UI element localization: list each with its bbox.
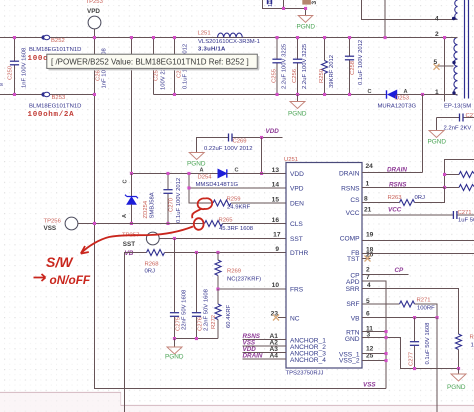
svg-text:SST: SST bbox=[290, 236, 303, 243]
junction C258 bottom bbox=[348, 93, 351, 96]
red annotation arrowhead bbox=[81, 246, 89, 254]
capacitor C269 bbox=[197, 134, 283, 153]
red annotation text ON/OFF bbox=[34, 274, 46, 281]
no-connect X pin 20 TST bbox=[362, 256, 371, 262]
svg-text:BLM18EG101TN1D: BLM18EG101TN1D bbox=[29, 47, 81, 53]
svg-text:24: 24 bbox=[366, 163, 374, 170]
svg-text:2.2nF 2KV: 2.2nF 2KV bbox=[444, 126, 472, 132]
svg-text:1K: 1K bbox=[471, 343, 474, 349]
junction C258 top bbox=[348, 36, 351, 39]
svg-text:2.2uF 100V 3225: 2.2uF 100V 3225 bbox=[282, 43, 288, 89]
svg-text:14: 14 bbox=[272, 182, 280, 189]
wire pin24 DRAIN bbox=[362, 172, 423, 174]
wire VB down off edge bbox=[436, 318, 438, 412]
junction VSS_1 bbox=[385, 352, 388, 355]
svg-text:12: 12 bbox=[366, 346, 374, 353]
svg-text:CS: CS bbox=[350, 197, 360, 204]
wire RSNS net off-edge bbox=[445, 160, 474, 188]
junction VB / R271 drop bbox=[436, 316, 439, 319]
wire pin12 VSS_1 bbox=[362, 353, 386, 355]
svg-text:ZD254: ZD254 bbox=[143, 200, 149, 218]
junction VPD drop top bbox=[187, 172, 190, 175]
junction C264 bottom / VSS corner bbox=[93, 93, 96, 96]
svg-text:U251: U251 bbox=[284, 157, 298, 163]
resistor R259 bbox=[213, 197, 286, 211]
svg-text:15: 15 bbox=[272, 197, 280, 204]
ground PGND below mid rail bbox=[288, 95, 307, 118]
svg-text:VLS201610CX-3R3M-1: VLS201610CX-3R3M-1 bbox=[198, 39, 260, 45]
svg-text:[ /POWER/B252 Value: BLM18EG10: [ /POWER/B252 Value: BLM18EG101TN1D Ref:… bbox=[51, 58, 249, 67]
junction top sub b bbox=[304, 7, 307, 10]
anchor pin A2 VSS bbox=[243, 340, 287, 347]
svg-text:7: 7 bbox=[366, 274, 370, 281]
resistor R271 bbox=[362, 298, 437, 318]
svg-text:GND: GND bbox=[345, 336, 360, 343]
svg-text:DRAIN: DRAIN bbox=[243, 353, 263, 360]
wire pin9 DTHR bbox=[165, 252, 287, 254]
capacitor C264 bbox=[90, 38, 108, 95]
diode D254 bbox=[196, 168, 239, 189]
svg-text:3.3uH/1A: 3.3uH/1A bbox=[198, 47, 226, 53]
svg-text:DTHR: DTHR bbox=[290, 250, 309, 257]
svg-text:C: C bbox=[123, 179, 129, 183]
svg-text:TST: TST bbox=[347, 256, 359, 263]
red annotation circle around R259 left bbox=[198, 198, 213, 209]
wire VB stub down bbox=[125, 253, 147, 412]
svg-text:17: 17 bbox=[273, 232, 281, 239]
junction C256 top bbox=[296, 36, 299, 39]
svg-text:VDD: VDD bbox=[290, 171, 304, 178]
svg-text:A4: A4 bbox=[270, 353, 279, 360]
svg-text:PGND: PGND bbox=[187, 161, 206, 168]
wire PGND mid rail bbox=[154, 94, 387, 96]
svg-text:VB: VB bbox=[125, 250, 134, 257]
svg-text:NC(237KRF): NC(237KRF) bbox=[227, 277, 261, 283]
junction on pin13 wire bbox=[260, 172, 263, 175]
red annotation squiggle connector bbox=[192, 209, 202, 219]
junction R250 bottom bbox=[323, 93, 326, 96]
junction zener bottom bbox=[130, 222, 133, 225]
svg-text:D254: D254 bbox=[198, 175, 213, 181]
wire VSS drop from return rail bbox=[95, 95, 387, 389]
pin numbers right side bbox=[364, 163, 374, 360]
wire input return rail bbox=[0, 94, 95, 96]
transformer pin 4 dot bbox=[452, 17, 455, 20]
junction C270 top bbox=[166, 172, 169, 175]
wire pin3 GND bbox=[362, 338, 459, 369]
svg-text:DRAIN: DRAIN bbox=[339, 171, 360, 178]
svg-text:0RJ: 0RJ bbox=[415, 195, 426, 201]
svg-text:FRS: FRS bbox=[290, 287, 304, 294]
svg-text:NC: NC bbox=[290, 316, 300, 323]
transformer pin 1 dot bbox=[452, 91, 455, 94]
transformer center tap dot bbox=[452, 61, 455, 64]
svg-text:0.1uF 50V 1608: 0.1uF 50V 1608 bbox=[425, 322, 431, 365]
junction C270 bottom bbox=[166, 222, 169, 225]
svg-text:R270: R270 bbox=[470, 335, 474, 341]
svg-text:0RJ: 0RJ bbox=[145, 269, 156, 275]
red annotation circle around R265 left bbox=[194, 218, 204, 230]
junction VSS_2 bbox=[385, 359, 388, 362]
junction C255 top bbox=[276, 36, 279, 39]
junction C255 bottom bbox=[276, 93, 279, 96]
svg-text:VSS: VSS bbox=[44, 225, 57, 232]
wire pin10 FRS bbox=[218, 288, 286, 290]
transformer pin 3 stub (cut) bbox=[302, 0, 311, 5]
svg-text:0.1uF 100V 2012: 0.1uF 100V 2012 bbox=[358, 40, 364, 85]
svg-text:TP253: TP253 bbox=[86, 0, 104, 5]
svg-text:39KRF 2012: 39KRF 2012 bbox=[329, 55, 335, 88]
wire pin14 VPD bbox=[189, 187, 286, 189]
svg-text:C: C bbox=[235, 168, 239, 174]
svg-text:PGND: PGND bbox=[288, 111, 307, 118]
svg-text:SST: SST bbox=[123, 241, 135, 248]
svg-text:C270: C270 bbox=[169, 197, 175, 212]
junction VPD rail / up wire bbox=[384, 36, 387, 39]
svg-text:CP: CP bbox=[395, 267, 405, 274]
svg-text:3: 3 bbox=[311, 1, 318, 5]
junction FRS / R272 bbox=[216, 288, 219, 291]
junction DTHR / R269 bbox=[216, 251, 219, 254]
wire DRAIN vertical bbox=[422, 95, 424, 173]
junction pin14 bbox=[187, 186, 190, 189]
zener diode ZD254 bbox=[122, 174, 156, 224]
svg-text:D253: D253 bbox=[395, 96, 410, 102]
svg-text:MURA120T3G: MURA120T3G bbox=[378, 104, 417, 110]
svg-text:R272: R272 bbox=[211, 315, 217, 329]
svg-text:DRAIN: DRAIN bbox=[387, 167, 407, 174]
resistor R272 bbox=[211, 289, 232, 339]
svg-text:2.2nF 50V 1608: 2.2nF 50V 1608 bbox=[204, 288, 210, 331]
svg-text:4: 4 bbox=[435, 16, 439, 23]
wire top component leg bbox=[283, 0, 285, 9]
svg-text:ANCHOR_4: ANCHOR_4 bbox=[290, 357, 326, 364]
svg-text:100ohm/2A: 100ohm/2A bbox=[28, 111, 75, 119]
svg-text:APD: APD bbox=[346, 279, 360, 286]
transformer T primary winding upper bbox=[455, 0, 458, 20]
ferrite bead B252 bbox=[28, 35, 82, 63]
resistor Rs2 (off edge) bbox=[445, 185, 474, 191]
wire pin4 SRR bbox=[362, 289, 459, 335]
wire VSS row bbox=[78, 223, 205, 225]
junction C250 bottom bbox=[13, 93, 16, 96]
junction Rs1 bbox=[443, 173, 446, 176]
transformer T primary winding lower bbox=[454, 38, 458, 96]
svg-text:MMSD4148T1G: MMSD4148T1G bbox=[196, 182, 239, 188]
svg-text:VCC: VCC bbox=[388, 207, 402, 214]
svg-text:C258: C258 bbox=[350, 60, 356, 75]
ground PGND below C269 bbox=[187, 153, 206, 168]
svg-text:COMP: COMP bbox=[340, 236, 360, 243]
junction SST / C275 bbox=[173, 237, 176, 240]
resistor Rs1 (off edge) bbox=[445, 172, 474, 178]
svg-text:SRF: SRF bbox=[346, 301, 359, 308]
tooltip bbox=[47, 54, 259, 70]
ground PGND below C272 bbox=[428, 131, 447, 146]
transformer core bbox=[465, 0, 469, 99]
test point TP257 bbox=[122, 232, 159, 257]
junction C259 top bbox=[152, 36, 155, 39]
junction zener top bbox=[130, 172, 133, 175]
svg-text:R263: R263 bbox=[388, 195, 403, 201]
resistor R268 bbox=[145, 250, 165, 275]
capacitor C258 bbox=[345, 38, 364, 95]
svg-text:CLS: CLS bbox=[290, 221, 303, 228]
svg-text:C277: C277 bbox=[409, 352, 415, 366]
svg-text:0.1uF 100V 2012: 0.1uF 100V 2012 bbox=[176, 178, 182, 223]
capacitor C250 bbox=[8, 38, 28, 95]
svg-text:2: 2 bbox=[366, 267, 370, 274]
svg-text:PGND: PGND bbox=[165, 354, 184, 361]
svg-text:C272: C272 bbox=[466, 113, 474, 119]
resistor R263 bbox=[362, 188, 445, 206]
junction TP253/C264 top bbox=[93, 36, 96, 39]
svg-text:s: s bbox=[0, 82, 3, 88]
svg-text:24.9KRF: 24.9KRF bbox=[227, 205, 251, 211]
svg-text:0.22uF 100V 2012: 0.22uF 100V 2012 bbox=[204, 146, 252, 152]
svg-text:TPS23750RJJ: TPS23750RJJ bbox=[286, 371, 324, 377]
svg-text:RSNS: RSNS bbox=[341, 186, 360, 193]
anchor pin A1 RSNS bbox=[243, 333, 287, 340]
svg-text:PGND: PGND bbox=[447, 384, 466, 391]
svg-text:10: 10 bbox=[272, 282, 280, 289]
wire D253 anode to transformer pin 1 bbox=[397, 94, 453, 96]
svg-text:21: 21 bbox=[364, 207, 372, 214]
svg-text:R271: R271 bbox=[417, 298, 431, 304]
junction DTHR / C276 bbox=[195, 251, 198, 254]
junction RSNS vertical top bbox=[443, 36, 446, 39]
svg-text:R269: R269 bbox=[227, 269, 241, 275]
svg-text:R259: R259 bbox=[227, 197, 241, 203]
svg-text:B252: B252 bbox=[51, 38, 65, 44]
junction VDD branch top bbox=[130, 36, 133, 39]
sheet border bbox=[0, 393, 474, 406]
capacitor C271 bbox=[362, 210, 474, 224]
transformer pin 5 stub with no-connect X bbox=[434, 59, 454, 70]
inductor L251 bbox=[198, 31, 260, 53]
wire pin17 SST bbox=[159, 238, 286, 240]
svg-text:100RF: 100RF bbox=[417, 306, 435, 312]
pin numbers left side bbox=[271, 167, 281, 318]
junction C254 bottom bbox=[173, 93, 176, 96]
capacitor C254 bbox=[170, 38, 189, 95]
svg-text:VDD: VDD bbox=[266, 128, 280, 135]
no-connect X pin 23 bbox=[273, 315, 286, 321]
svg-text:1: 1 bbox=[366, 181, 370, 188]
wire pin7 APD to RTN vertical bbox=[362, 281, 386, 389]
junction VDD tap bbox=[260, 136, 263, 139]
svg-text:SMBJ58A: SMBJ58A bbox=[150, 192, 156, 218]
wire pin19 COMP bbox=[362, 240, 474, 242]
svg-text:PGND: PGND bbox=[297, 24, 316, 31]
svg-text:VSS: VSS bbox=[363, 382, 376, 389]
svg-text:16: 16 bbox=[272, 217, 280, 224]
svg-text:8: 8 bbox=[364, 196, 368, 203]
junction C250 top bbox=[13, 36, 16, 39]
svg-text:C255: C255 bbox=[272, 68, 278, 83]
wire RSNS vertical from VPD rail bbox=[444, 38, 446, 102]
svg-text:PGND: PGND bbox=[428, 139, 447, 146]
junction PGND bar / C275 bbox=[173, 337, 176, 340]
capacitor C275 bbox=[170, 239, 188, 339]
svg-text:A: A bbox=[122, 214, 128, 218]
svg-text:S/W: S/W bbox=[46, 254, 74, 270]
svg-text:C256: C256 bbox=[292, 68, 298, 83]
svg-text:6: 6 bbox=[366, 311, 370, 318]
svg-text:A: A bbox=[200, 168, 204, 174]
wire up from VPD rail bbox=[384, 0, 386, 38]
red annotation arrow curve bbox=[82, 227, 194, 253]
svg-text:VSS_2: VSS_2 bbox=[339, 358, 360, 365]
junction RTN bbox=[385, 330, 388, 333]
resistor R269 bbox=[215, 253, 261, 290]
svg-text:1: 1 bbox=[435, 89, 439, 96]
svg-text:9: 9 bbox=[275, 246, 279, 253]
capacitor C270 bbox=[163, 174, 182, 224]
svg-text:RSNS: RSNS bbox=[389, 182, 407, 189]
net label VDD bbox=[266, 128, 280, 135]
resistor R250 bbox=[319, 38, 335, 95]
resistor R270 bbox=[456, 334, 474, 369]
svg-text:VB: VB bbox=[351, 316, 360, 323]
wire pin13 VDD bbox=[227, 173, 286, 175]
svg-text:C269: C269 bbox=[233, 139, 247, 145]
svg-text:VPD: VPD bbox=[290, 186, 304, 193]
svg-text:L251: L251 bbox=[198, 31, 211, 37]
junction top sub a bbox=[282, 7, 285, 10]
wire VDD branch drop bbox=[131, 38, 133, 174]
junction PGND bar / C276 bbox=[195, 337, 198, 340]
svg-text:B253: B253 bbox=[52, 95, 66, 101]
svg-text:2: 2 bbox=[435, 31, 439, 38]
test point TP253 bbox=[86, 0, 104, 38]
wire pin18 FB bbox=[362, 253, 474, 255]
svg-text:1uF 50V: 1uF 50V bbox=[458, 218, 474, 224]
svg-text:45.3RF 1608: 45.3RF 1608 bbox=[219, 226, 254, 232]
svg-text:EP-13(SM: EP-13(SM bbox=[444, 104, 471, 110]
ground PGND bottom right bbox=[447, 369, 466, 392]
junction R270 bottom bbox=[457, 367, 460, 370]
junction DRAIN tap bbox=[421, 93, 424, 96]
wire VDD tap down to pin 13 bbox=[261, 138, 263, 174]
wire pin2 CP stub bbox=[362, 274, 409, 276]
junction C256 bottom bbox=[296, 93, 299, 96]
svg-text:19: 19 bbox=[366, 232, 374, 239]
test point TP256 bbox=[44, 217, 78, 232]
svg-text:2.2uF 100V 3225: 2.2uF 100V 3225 bbox=[302, 43, 308, 89]
svg-text:60.4KRF: 60.4KRF bbox=[226, 304, 232, 328]
anchor pin A3 VDD bbox=[243, 346, 287, 353]
svg-text:4: 4 bbox=[367, 282, 371, 289]
junction C254 top bbox=[173, 36, 176, 39]
wire pin6 VB bbox=[362, 317, 437, 319]
wire pin11 RTN bbox=[362, 331, 386, 333]
ground PGND top center bbox=[297, 16, 316, 31]
wire PGND bar bottom left bbox=[175, 338, 219, 340]
capacitor C256 bbox=[292, 38, 308, 95]
svg-text:VCC: VCC bbox=[346, 210, 360, 217]
junction C277 bottom bbox=[413, 367, 416, 370]
svg-text:VPD: VPD bbox=[87, 8, 100, 15]
wire pin25 VSS_2 bbox=[362, 360, 386, 362]
anchor pin A4 DRAIN bbox=[243, 353, 287, 360]
svg-text:13: 13 bbox=[272, 167, 280, 174]
diode D253 bbox=[368, 89, 417, 110]
svg-text:C250: C250 bbox=[8, 65, 14, 80]
wire VPD-in top rail bbox=[0, 37, 453, 39]
svg-text:22nF 50V 1608: 22nF 50V 1608 bbox=[182, 289, 188, 330]
svg-text:SRR: SRR bbox=[346, 286, 360, 293]
wire VPD net row (anode side) bbox=[132, 173, 219, 175]
svg-text:oN/oFF: oN/oFF bbox=[50, 273, 91, 287]
svg-text:TP256: TP256 bbox=[44, 219, 62, 225]
capacitor C259 bbox=[149, 38, 167, 95]
svg-text:C271: C271 bbox=[458, 210, 472, 216]
junction VB / C277 bbox=[413, 316, 416, 319]
ground PGND bottom left bbox=[165, 339, 184, 361]
capacitor C277 bbox=[409, 318, 432, 369]
svg-text:1nF 100V 1608: 1nF 100V 1608 bbox=[22, 47, 28, 88]
capacitor C255 bbox=[272, 38, 288, 95]
svg-text:R250: R250 bbox=[319, 68, 325, 83]
junction GND / RTN vertical bbox=[385, 336, 388, 339]
junction VSS row / VSS drop bbox=[93, 222, 96, 225]
svg-text:BLM18EG101TN1D: BLM18EG101TN1D bbox=[29, 104, 81, 110]
wire VPD drop to pin14/R259 bbox=[189, 174, 213, 204]
svg-text:DEN: DEN bbox=[290, 201, 304, 208]
resistor R265 bbox=[205, 218, 287, 233]
wire pin1 RSNS bbox=[362, 187, 445, 189]
capacitor C272 2.2nF 2KV bbox=[437, 113, 474, 132]
junction R250 top bbox=[323, 36, 326, 39]
svg-text:R268: R268 bbox=[145, 262, 160, 268]
wire to transformer pin 4 bbox=[362, 0, 453, 20]
junction Rs2 / RSNS bbox=[443, 186, 446, 189]
capacitor C276 bbox=[192, 253, 210, 339]
wire top sub-circuit (cut off at top) bbox=[263, 0, 306, 15]
op-amp U251 TPS23750RJJ bbox=[284, 157, 362, 377]
ferrite bead B253 bbox=[28, 92, 82, 119]
svg-text:C: C bbox=[368, 89, 372, 95]
svg-text:R265: R265 bbox=[219, 218, 234, 224]
